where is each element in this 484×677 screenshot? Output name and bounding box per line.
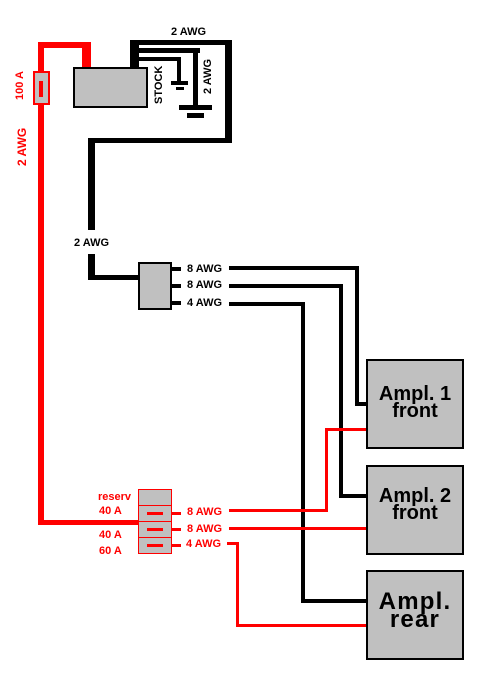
wire: black left vertical down (upper part, gap at label) [88,138,95,230]
wire: fuse block output stub 3 [172,544,181,547]
ground: stock ground symbol bar 1 [171,81,188,85]
wire: 8 AWG line 2 vertical down [339,284,343,498]
wire: red main feed horizontal into fuse block [38,520,139,525]
wire: black top horizontal (2 AWG to right) [130,40,232,45]
wire: 4 AWG line 3 into Ampl. rear [301,599,366,603]
wire: red battery feed horizontal top [38,42,91,48]
fuse 100 A main fuse holder [33,71,50,105]
wire: red 4 AWG line horizontal [227,542,239,545]
wire: black right vertical [225,40,232,143]
wire: red vertical down to fuse 100A top [38,42,44,73]
label: STOCK (vertical) [154,66,165,104]
label: 2 AWG (mid, distribution feed) [74,238,109,249]
wire: red 8 AWG line 2 horizontal into Ampl.2 [229,527,366,530]
label: 100 A (vertical, red) [15,71,26,100]
wire: black second horizontal (chassis ground 2 AWG) [137,48,200,53]
amplifier Ampl. 1 front [366,359,464,449]
label: reserv [98,492,131,503]
wire: red 4 AWG line vertical down [236,542,239,627]
wire: black ground drop vertical (2 AWG) [193,48,198,106]
wire: red 8 AWG line 1 horizontal [229,509,328,512]
wire: 8 AWG line 2 into Ampl.2 [339,494,366,498]
wire: black stock ground drop vertical [177,57,181,81]
distribution block [138,262,172,310]
wire: black left vertical down (lower part) [88,254,95,280]
ground: chassis ground symbol bar 2 [187,113,204,118]
wire: black horizontal into distribution block [88,275,139,280]
wire: 8 AWG line 1 to Ampl.1 horizontal [229,266,359,270]
fuse element 40 A (pos 3) [147,528,163,531]
wire: distribution block output stub 1 [172,267,181,271]
amplifier Ampl. 2 front [366,465,464,555]
label: 8 AWG (red out 2) [187,524,222,535]
fuse element 40 A (pos 2) [147,512,163,515]
ground: chassis ground symbol bar 1 [179,105,212,110]
wire: black battery negative terminal stub [130,40,139,68]
wire: 8 AWG line 2 horizontal [229,284,343,288]
amplifier Ampl. rear [366,570,464,660]
wire: 4 AWG line 3 horizontal [229,302,305,306]
label: 8 AWG (dist out 1) [187,264,222,275]
wire: red 4 AWG line into Ampl. rear [236,624,366,627]
battery (stock battery box) [73,67,148,108]
wire: 4 AWG line 3 vertical down [301,302,305,603]
wire: fuse block output stub 2 [172,528,181,531]
wire: fuse block output stub 1 [172,512,181,515]
label: 2 AWG (vertical, ground wire) [203,59,214,94]
ground: stock ground symbol bar 2 [176,87,184,90]
fuse block divider 1 [138,505,172,506]
label: 4 AWG (red out 3) [186,539,221,550]
label: 8 AWG (dist out 2) [187,280,222,291]
fuse block (4 positions) [138,489,172,554]
fuse block divider 3 [138,537,172,538]
label: 40 A (pos 2) [99,506,122,517]
fuse element 60 A (pos 4) [147,544,163,547]
wire: red main feed vertical (2 AWG) [38,104,44,525]
label: 4 AWG (dist out 3) [187,298,222,309]
fuse block divider 2 [138,521,172,522]
label: 8 AWG (red out 1) [187,507,222,518]
wire: distribution block output stub 3 [172,301,181,305]
wire: black middle horizontal going left [88,138,232,143]
wire: red battery positive terminal stub [82,42,91,68]
wire: red 8 AWG line 1 into Ampl.1 [325,428,366,431]
wire: 8 AWG line 1 into Ampl.1 [355,402,366,406]
label: 40 A (pos 3) [99,530,122,541]
label: 2 AWG (top) [171,27,206,38]
label: 60 A (pos 4) [99,546,122,557]
label: 2 AWG (vertical, red) [17,128,28,166]
wire: distribution block output stub 2 [172,284,181,288]
wire: 8 AWG line 1 vertical down [355,266,359,406]
fuse 100 A element bar [39,81,43,97]
wire: red 8 AWG line 1 vertical up [325,428,328,512]
wire: black third horizontal (stock ground) [137,57,181,61]
